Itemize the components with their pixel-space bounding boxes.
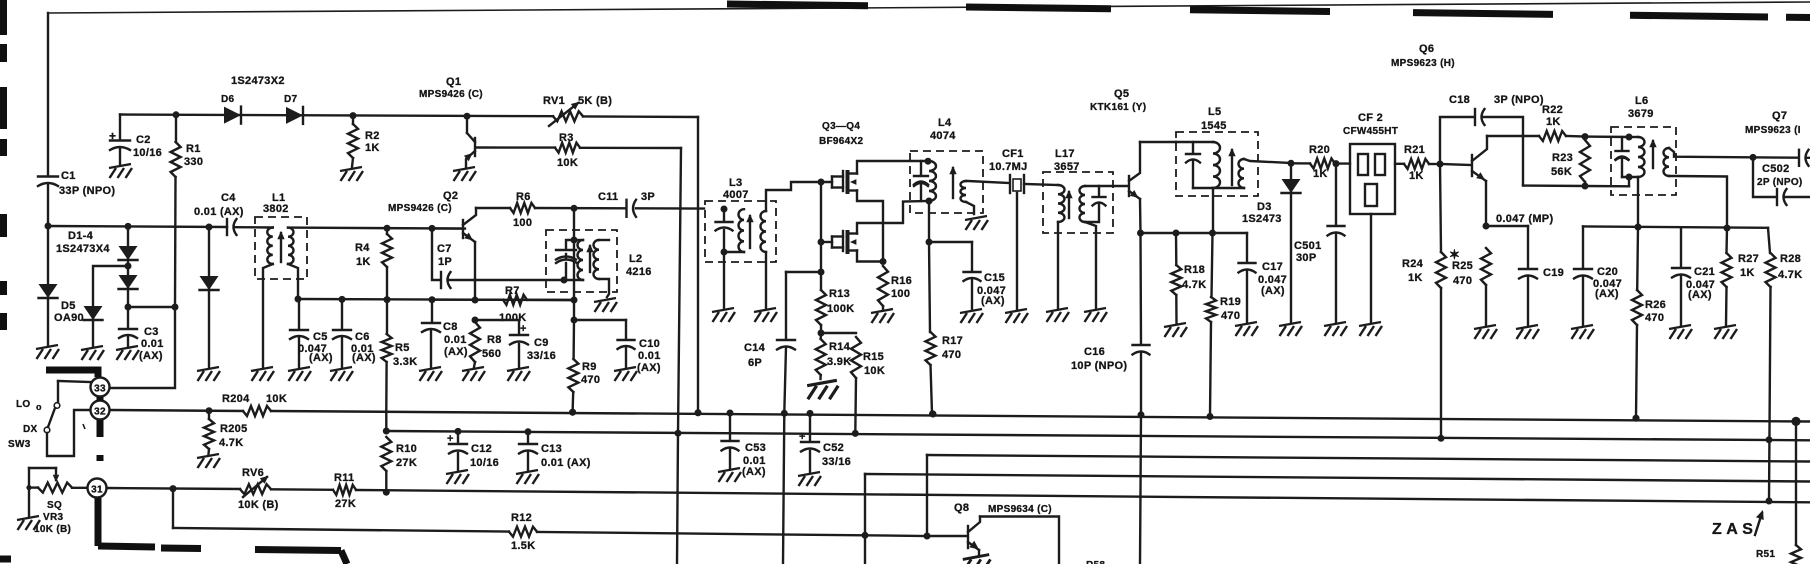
wire Q4 drain from L4 primary bottom: [857, 201, 928, 234]
svg-text:0.047 (MP): 0.047 (MP): [1496, 213, 1553, 225]
wire Q3 source down: [857, 191, 883, 262]
diode D4 of D1-4 stack: [206, 224, 213, 231]
svg-text:4216: 4216: [626, 266, 652, 278]
svg-text:1K: 1K: [1546, 116, 1561, 128]
wire L3 secondary to Q3 gate: [766, 182, 832, 211]
svg-text:C20: C20: [1597, 266, 1618, 278]
resistor R15: [821, 332, 856, 334]
svg-text:Z A S: Z A S: [1712, 521, 1753, 538]
L2 tuning capacitor: [566, 240, 574, 249]
svg-text:Q1: Q1: [446, 76, 461, 88]
connector 31: [88, 479, 107, 498]
resistor R10: [381, 437, 391, 471]
svg-text:1K: 1K: [1740, 267, 1755, 279]
svg-text:3P (NPO): 3P (NPO): [1494, 94, 1544, 106]
svg-text:1K: 1K: [356, 256, 371, 268]
svg-text:R7: R7: [505, 285, 520, 297]
resistor R13: [816, 290, 826, 325]
shield thick line to connector 33: [46, 370, 98, 377]
svg-text:R204: R204: [222, 393, 250, 405]
svg-text:0.01: 0.01: [444, 334, 467, 346]
resistor R23: [1582, 133, 1589, 140]
svg-text:3.3K: 3.3K: [393, 356, 417, 368]
svg-text:R9: R9: [582, 361, 597, 373]
svg-text:4.7K: 4.7K: [1778, 269, 1802, 281]
svg-text:Q7: Q7: [1772, 110, 1787, 122]
wire gate bias column x=821: [818, 179, 825, 186]
svg-text:2P (NPO): 2P (NPO): [1757, 177, 1803, 188]
wire L6 secondary top output: [1669, 148, 1798, 158]
svg-text:470: 470: [1645, 312, 1664, 324]
svg-text:Q5: Q5: [1114, 88, 1129, 100]
svg-text:C6: C6: [355, 331, 370, 343]
svg-text:470: 470: [942, 349, 961, 361]
svg-text:R205: R205: [220, 423, 248, 435]
svg-text:6P: 6P: [748, 357, 762, 369]
wire R3 line down x=680 to rail B: [678, 148, 681, 433]
svg-text:L6: L6: [1635, 95, 1648, 107]
svg-text:SQ: SQ: [47, 500, 62, 511]
L17 arrow: [1068, 192, 1070, 218]
svg-text:C21: C21: [1694, 266, 1715, 278]
svg-text:R8: R8: [487, 334, 502, 346]
svg-text:C15: C15: [984, 272, 1005, 284]
svg-text:C14: C14: [744, 342, 766, 354]
diode D3: [1288, 160, 1295, 167]
resistor R21: [1395, 163, 1404, 165]
capacitor C10: [574, 319, 626, 321]
svg-text:D1-4: D1-4: [68, 230, 94, 242]
wire Q8 collector to bottom: [980, 517, 1059, 564]
diode D5: [93, 266, 128, 306]
resistor R25 with asterisk: [1483, 223, 1490, 230]
resistor R18: [1173, 230, 1180, 237]
svg-text:C11: C11: [598, 191, 618, 203]
svg-text:R4: R4: [355, 242, 370, 254]
capacitor C16: [1133, 344, 1150, 346]
node junction y=307: [128, 306, 175, 308]
connector 33: [91, 378, 110, 397]
svg-text:R3: R3: [559, 132, 574, 144]
capacitor C1: [47, 13, 49, 176]
svg-text:10K (B): 10K (B): [238, 499, 279, 511]
svg-text:R2: R2: [365, 130, 380, 142]
svg-text:KTK161 (Y): KTK161 (Y): [1090, 102, 1146, 113]
capacitor C14: [785, 272, 787, 339]
svg-text:1545: 1545: [1201, 120, 1227, 132]
resistor R2: [350, 112, 357, 119]
svg-text:33P (NPO): 33P (NPO): [59, 185, 115, 197]
svg-text:SW3: SW3: [8, 439, 31, 450]
wire rail E: [927, 455, 1810, 462]
svg-text:3802: 3802: [263, 203, 289, 215]
diode D3 of D1-4 stack: [127, 259, 129, 275]
svg-text:C7: C7: [437, 243, 452, 255]
svg-text:MPS9426 (C): MPS9426 (C): [419, 89, 483, 100]
svg-text:30P: 30P: [1296, 252, 1316, 264]
svg-text:D5: D5: [61, 300, 76, 312]
svg-text:C502: C502: [1762, 163, 1790, 175]
capacitor C501: [1333, 160, 1340, 167]
L1 primary coil: [267, 228, 273, 265]
svg-text:C4: C4: [221, 192, 236, 204]
svg-text:5K (B): 5K (B): [578, 95, 612, 107]
svg-text:470: 470: [1221, 310, 1240, 322]
svg-text:100K: 100K: [827, 303, 855, 315]
svg-text:4.7K: 4.7K: [219, 437, 243, 449]
svg-text:C12: C12: [471, 443, 492, 455]
svg-text:10K: 10K: [864, 365, 885, 377]
L5 arrow: [1231, 150, 1233, 185]
svg-text:R12: R12: [511, 512, 532, 524]
svg-text:C53: C53: [745, 442, 766, 454]
svg-text:R17: R17: [942, 335, 963, 347]
L1 secondary coil: [288, 228, 294, 264]
svg-text:1.5K: 1.5K: [511, 540, 535, 552]
svg-text:1K: 1K: [365, 142, 380, 154]
shield thick segment between connectors: [97, 397, 104, 401]
svg-text:D7: D7: [284, 94, 298, 105]
L6 primary coil: [1638, 137, 1645, 177]
L3 arrow: [749, 216, 751, 248]
svg-text:Q8: Q8: [954, 502, 969, 514]
svg-text:33/16: 33/16: [822, 456, 851, 468]
L4 tuning capacitor: [925, 158, 932, 165]
capacitor C12: [455, 428, 462, 435]
svg-text:Q6: Q6: [1419, 43, 1434, 55]
shield thick below connector 31: [95, 498, 102, 546]
svg-text:C501: C501: [1294, 240, 1322, 252]
L5 primary coil: [1213, 142, 1220, 188]
wire rail C squelch line: [107, 488, 240, 489]
svg-text:L2: L2: [629, 253, 642, 265]
svg-text:C2: C2: [136, 134, 151, 146]
wire L5 secondary out y=162: [1244, 159, 1291, 163]
transistor Q4 dual-gate FET: [818, 239, 825, 246]
capacitor C7: [429, 225, 436, 232]
svg-text:C17: C17: [1262, 261, 1283, 273]
variable resistor RV6: [240, 484, 271, 494]
svg-text:10.7MJ: 10.7MJ: [989, 161, 1028, 173]
svg-text:+: +: [520, 323, 527, 335]
wire Q3 drain to L4: [857, 161, 928, 174]
svg-text:+: +: [109, 129, 116, 143]
wire y=299 bias line: [298, 299, 574, 300]
svg-text:R26: R26: [1645, 299, 1666, 311]
L5 tuning capacitor: [1192, 142, 1194, 153]
L4 secondary coil: [961, 181, 967, 202]
svg-text:CFW455HT: CFW455HT: [1343, 126, 1398, 137]
resistor R22: [1487, 135, 1539, 137]
svg-text:560: 560: [482, 348, 501, 360]
capacitor C9: [475, 319, 519, 321]
svg-text:R21: R21: [1404, 144, 1425, 156]
svg-text:R13: R13: [829, 288, 850, 300]
svg-text:100: 100: [513, 217, 532, 229]
border: top thick dashed line: [727, 4, 868, 6]
resistor R204: [243, 406, 271, 416]
svg-text:C5: C5: [313, 331, 328, 343]
wire rail B: [385, 410, 387, 431]
svg-text:(AX): (AX): [637, 362, 661, 374]
L2 secondary coil: [594, 240, 600, 279]
svg-text:MPS9426 (C): MPS9426 (C): [388, 203, 452, 214]
shield thick bottom dashes: [98, 546, 155, 547]
svg-text:D3: D3: [1257, 201, 1272, 213]
svg-text:Q3—Q4: Q3—Q4: [822, 121, 860, 132]
svg-text:0.01 (AX): 0.01 (AX): [541, 457, 591, 469]
svg-text:MPS9634 (C): MPS9634 (C): [988, 504, 1052, 515]
wire rail A (R204 supply rail): [110, 410, 243, 411]
svg-text:C3: C3: [144, 326, 159, 338]
L17 secondary capacitor: [1085, 186, 1099, 196]
svg-text:L3: L3: [729, 177, 742, 189]
check mark near switch: [83, 424, 85, 429]
svg-text:3679: 3679: [1628, 108, 1654, 120]
CF2 ground pin: [1370, 214, 1372, 322]
wire rail F: [865, 474, 1810, 482]
resistor R28: [1768, 228, 1770, 253]
transistor Q3 dual-gate FET: [831, 177, 833, 188]
svg-text:MPS9623 (I: MPS9623 (I: [1745, 125, 1801, 136]
svg-text:(AX): (AX): [444, 346, 468, 358]
resistor R27: [1722, 253, 1732, 287]
resistor R8: [472, 297, 479, 304]
wire L6 secondary bottom to R27 node: [1669, 176, 1727, 228]
wire x=1796 column to R51: [1795, 421, 1797, 545]
wire L4 secondary top to CF1: [966, 181, 1009, 183]
svg-text:470: 470: [1453, 275, 1472, 287]
resistor R17: [929, 242, 930, 332]
svg-text:MPS9623 (H): MPS9623 (H): [1391, 58, 1455, 69]
svg-text:(AX): (AX): [742, 466, 766, 478]
resistor R14: [820, 333, 823, 339]
svg-text:31: 31: [91, 485, 103, 496]
wire MP jumper 2: [1583, 226, 1768, 227]
svg-text:R23: R23: [1552, 152, 1573, 164]
svg-text:R16: R16: [891, 275, 912, 287]
resistor R20: [1291, 162, 1310, 164]
resistor R6: [510, 203, 535, 213]
svg-text:R6: R6: [516, 191, 531, 203]
svg-text:10K (B): 10K (B): [34, 524, 71, 535]
wire CF1 to L17: [1024, 184, 1058, 185]
svg-text:Q2: Q2: [443, 190, 458, 202]
svg-text:+: +: [447, 433, 454, 445]
svg-text:R20: R20: [1309, 144, 1330, 156]
svg-text:(AX): (AX): [309, 352, 333, 364]
L2 primary coil: [578, 240, 584, 280]
wire main top rail y=115: [120, 115, 553, 117]
svg-text:+: +: [799, 431, 806, 443]
svg-text:CF1: CF1: [1002, 148, 1024, 160]
svg-text:33: 33: [94, 384, 106, 395]
svg-text:CF 2: CF 2: [1358, 112, 1383, 124]
svg-text:3.9K: 3.9K: [827, 356, 851, 368]
capacitor C21: [1680, 227, 1682, 267]
svg-text:R5: R5: [395, 342, 410, 354]
svg-text:4074: 4074: [930, 130, 956, 142]
svg-text:L17: L17: [1055, 148, 1075, 160]
capacitor C53: [729, 413, 731, 440]
svg-text:1K: 1K: [1409, 170, 1424, 182]
svg-text:R58: R58: [1086, 560, 1105, 564]
capacitor C3: [127, 307, 129, 328]
wire vertical x=677 below rail B: [677, 433, 678, 564]
svg-text:R11: R11: [334, 472, 354, 484]
wire collector line y=208: [476, 207, 510, 209]
svg-text:1K: 1K: [1313, 168, 1328, 180]
shield thick below connector 32: [97, 420, 104, 437]
svg-text:R24: R24: [1402, 258, 1424, 270]
L3 tuning capacitor: [721, 206, 728, 213]
L2 arrow: [589, 246, 591, 272]
svg-text:RV1: RV1: [543, 95, 565, 107]
resistor R11: [333, 485, 356, 495]
border: left thick dashed shield line: [0, 0, 7, 35]
wire L17 to Q5 gate: [1099, 185, 1128, 187]
svg-text:4.7K: 4.7K: [1182, 279, 1206, 291]
wire L4 secondary bottom to ground: [966, 202, 974, 214]
svg-text:0.01 (AX): 0.01 (AX): [194, 206, 244, 218]
svg-text:R27: R27: [1738, 253, 1759, 265]
L3 primary ground: [723, 252, 725, 308]
svg-text:C13: C13: [541, 443, 562, 455]
resistor R12: [509, 527, 537, 537]
svg-text:(AX): (AX): [139, 350, 163, 362]
wire Q5 drain to L5: [1140, 141, 1176, 143]
L17 secondary coil: [1080, 186, 1086, 222]
svg-text:C10: C10: [639, 338, 660, 350]
wire base rail y=227: [48, 226, 227, 227]
svg-text:(AX): (AX): [1261, 285, 1285, 297]
svg-text:10/16: 10/16: [470, 457, 499, 469]
svg-text:(AX): (AX): [981, 295, 1005, 307]
svg-text:330: 330: [184, 156, 203, 168]
wire top rail corner down x=698: [697, 117, 699, 413]
svg-text:L5: L5: [1208, 106, 1221, 118]
resistor R51 partial at bottom: [1791, 545, 1801, 564]
wire C14 feed line y=272: [786, 271, 821, 273]
svg-text:3P: 3P: [641, 191, 655, 203]
svg-text:R51: R51: [1756, 549, 1775, 560]
svg-text:C18: C18: [1449, 94, 1470, 106]
capacitor C2: [119, 115, 121, 140]
wire Q5 source column x=1141: [1139, 199, 1142, 233]
wire from junction down to connector 33: [110, 307, 175, 388]
Q8 emitter ground partial: [963, 555, 991, 564]
svg-text:0.01: 0.01: [141, 338, 164, 350]
diode D2 of D1-4 stack: [125, 223, 132, 230]
L17 primary coil: [1058, 185, 1065, 222]
L4 arrow: [952, 168, 954, 198]
resistor R4: [384, 225, 391, 232]
wire rail E corner down x=927: [926, 455, 928, 536]
svg-text:C9: C9: [534, 337, 549, 349]
svg-text:R15: R15: [863, 351, 884, 363]
wire MP jumper 1 and capacitor C19: [1486, 225, 1528, 227]
connector 32: [91, 401, 110, 420]
capacitor C8: [431, 300, 433, 322]
svg-text:470: 470: [581, 374, 600, 386]
svg-text:C19: C19: [1543, 267, 1564, 279]
svg-text:1S2473X4: 1S2473X4: [56, 243, 110, 255]
svg-text:D6: D6: [221, 94, 235, 105]
svg-text:C52: C52: [823, 442, 844, 454]
resistor R16: [878, 266, 888, 306]
svg-text:OA90: OA90: [54, 312, 84, 324]
capacitor C6: [339, 296, 346, 303]
svg-text:10K: 10K: [557, 157, 578, 169]
resistor R5: [384, 296, 391, 303]
L6 tuning capacitor: [1585, 135, 1629, 138]
svg-text:C16: C16: [1084, 346, 1105, 358]
svg-text:10P (NPO): 10P (NPO): [1071, 360, 1127, 372]
wire rail F corner down x=865: [864, 474, 866, 564]
svg-text:L4: L4: [938, 117, 952, 129]
L3 primary coil: [739, 209, 745, 252]
svg-text:33/16: 33/16: [527, 350, 556, 362]
capacitor C5: [298, 299, 300, 329]
svg-text:27K: 27K: [335, 498, 356, 510]
svg-text:R1: R1: [186, 143, 201, 155]
resistor R7: [432, 299, 503, 301]
svg-text:32: 32: [94, 407, 106, 418]
svg-text:LO: LO: [16, 399, 31, 410]
wire L6 primary bottom down x=1638: [1637, 177, 1639, 227]
shield thick bottom left corner: [0, 556, 11, 563]
L5 secondary coil: [1239, 159, 1245, 188]
svg-text:1S2473X2: 1S2473X2: [231, 75, 285, 87]
svg-text:1K: 1K: [1408, 272, 1423, 284]
resistor R3 base feedback: [477, 146, 555, 149]
capacitor C502: [1750, 154, 1757, 161]
svg-text:C8: C8: [443, 321, 458, 333]
svg-text:R22: R22: [1542, 104, 1563, 116]
svg-text:4007: 4007: [723, 189, 749, 201]
svg-text:1P: 1P: [438, 256, 452, 268]
wire source feed line y=233: [1141, 232, 1248, 234]
svg-text:(AX): (AX): [352, 352, 376, 364]
border: top thin frame line: [48, 2, 1810, 13]
capacitor C13: [525, 428, 532, 435]
capacitor C17: [1246, 233, 1248, 262]
svg-text:RV6: RV6: [242, 467, 264, 479]
L1 arrow: [280, 233, 282, 262]
wire L4 primary bottom junction to C15/R17: [928, 201, 930, 242]
svg-text:100: 100: [891, 288, 910, 300]
svg-text:R19: R19: [1220, 296, 1241, 308]
svg-text:R28: R28: [1780, 253, 1801, 265]
svg-text:27K: 27K: [396, 457, 417, 469]
svg-text:VR3: VR3: [43, 512, 63, 523]
capacitor at right edge to Q7: [1798, 150, 1800, 166]
resistor R1: [173, 111, 180, 118]
svg-text:C1: C1: [61, 170, 76, 182]
svg-text:0.01: 0.01: [638, 350, 661, 362]
rail A junction dots: [569, 409, 576, 416]
wire drop to R12 line: [172, 489, 174, 528]
L4 primary coil: [929, 161, 936, 201]
resistor R26: [1636, 227, 1639, 290]
svg-text:R10: R10: [396, 443, 417, 455]
transistor Q6: [1437, 161, 1444, 168]
svg-text:56K: 56K: [1551, 166, 1572, 178]
L3 secondary ground: [765, 252, 767, 308]
wire L5 primary bottom to junction: [1212, 188, 1214, 233]
wire emitter tap line y=186: [1523, 184, 1585, 187]
wire long vertical x=574 from y208 to y320: [571, 205, 578, 212]
